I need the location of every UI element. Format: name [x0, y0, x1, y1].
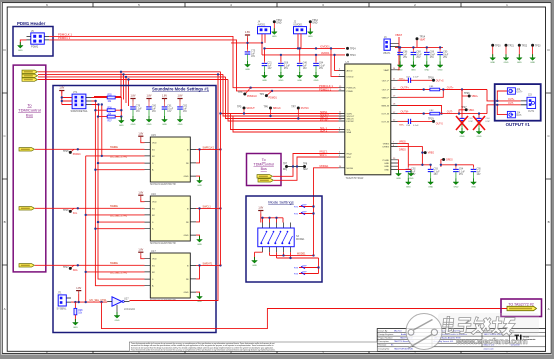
svg-text:OUT-: OUT- — [508, 102, 514, 105]
svg-text:25V: 25V — [416, 57, 421, 59]
svg-text:TP3: TP3 — [238, 91, 243, 94]
svg-text:VREG: VREG — [383, 143, 389, 145]
svg-text:C75: C75 — [251, 51, 256, 53]
svg-text:1uF: 1uF — [303, 65, 308, 67]
snubber cap C64 DNP with X — [473, 114, 491, 131]
svg-text:TP17: TP17 — [63, 267, 69, 269]
svg-text:16V: 16V — [251, 56, 256, 58]
ground in mode box — [252, 257, 258, 267]
test point TP13 on AVDD — [346, 53, 349, 56]
wire VREG row — [398, 143, 423, 164]
svg-text:VBM_P: VBM_P — [382, 97, 390, 99]
svg-text:TP21: TP21 — [508, 46, 514, 48]
wire SCL long line — [231, 114, 339, 130]
svg-text:C89: C89 — [430, 52, 435, 54]
connector JT1 SWMODETAIL — [71, 90, 92, 113]
svg-text:MODE: MODE — [347, 168, 354, 170]
wire I2C_SEL_CTRL row — [71, 294, 107, 303]
logo circle — [406, 314, 442, 350]
capacitor C88 — [411, 50, 417, 62]
capacitor C86 — [397, 50, 403, 62]
svg-text:I2C_SEL_CTRL: I2C_SEL_CTRL — [90, 299, 108, 302]
power 1.8V at JT1 — [59, 87, 64, 94]
svg-text:IOVDD: IOVDD — [347, 76, 354, 78]
svg-text:IOVDD1: IOVDD1 — [320, 45, 330, 49]
svg-text:Soundwire Mode Settings #1: Soundwire Mode Settings #1 — [152, 87, 210, 92]
svg-text:0.1uF: 0.1uF — [136, 108, 142, 110]
svg-text:25V: 25V — [284, 68, 289, 70]
resistor R28 pulldown — [74, 302, 83, 321]
ground of TP10 — [272, 28, 278, 38]
test point on tag3 wire — [71, 265, 74, 268]
svg-text:TP20: TP20 — [495, 46, 501, 48]
wire AVDD drop to IC AVDD — [335, 55, 339, 71]
svg-text:R55: R55 — [108, 95, 113, 97]
svg-text:SNS-: SNS- — [399, 124, 404, 126]
wire VBAT rail — [395, 37, 443, 70]
svg-text:DREG: DREG — [446, 160, 453, 162]
svg-text:25V: 25V — [319, 68, 324, 70]
ground U17 — [196, 292, 200, 295]
test point TP7 segment — [285, 165, 288, 168]
svg-text:PDMCLK: PDMCLK — [347, 88, 357, 90]
svg-text:DNP: DNP — [302, 205, 307, 207]
test point TP12 GND — [309, 20, 312, 23]
svg-text:VREG: VREG — [399, 140, 406, 143]
zone ticks right — [546, 93, 552, 265]
svg-text:Texas Instruments and/or its l: Texas Instruments and/or its licensors d… — [131, 348, 276, 351]
svg-text:Description:: Description: — [379, 340, 390, 343]
svg-text:SDA: SDA — [73, 269, 78, 272]
wire tdm bus line3 — [38, 76, 226, 78]
svg-text:DNP: DNP — [486, 121, 491, 123]
capacitor C90 — [437, 50, 443, 62]
wire OUT_M sense row with series cap C58 — [398, 120, 409, 122]
test point TP on PDMCLK — [246, 88, 251, 94]
OUTPUT #1 box — [495, 84, 541, 127]
svg-text:PDMD: PDMD — [347, 91, 354, 93]
wire TP7-TP8 tie — [288, 166, 303, 168]
svg-text:R56: R56 — [108, 107, 113, 109]
svg-text:C66: C66 — [284, 63, 289, 65]
tag SDOUT left 2 — [19, 207, 35, 210]
svg-text:OUT_P: OUT_P — [382, 80, 390, 82]
svg-text:SDA: SDA — [347, 131, 352, 134]
svg-text:C81: C81 — [167, 106, 172, 108]
TO TAS2772 #2 box — [501, 299, 542, 317]
test point TP8 segment — [303, 165, 306, 168]
svg-text:TP18: TP18 — [428, 77, 434, 79]
svg-text:1uF: 1uF — [268, 65, 273, 67]
wire mode vertical x313.5 lower — [313, 207, 315, 256]
svg-text:SCL: SCL — [73, 213, 78, 215]
capacitor C92 — [406, 167, 412, 179]
svg-text:OUT+: OUT+ — [508, 98, 515, 101]
To TDM/Control Bus box (center) — [247, 154, 282, 186]
svg-text:1uF: 1uF — [183, 108, 188, 110]
svg-text:DREG: DREG — [399, 148, 406, 151]
svg-text:Revision:: Revision: — [379, 345, 388, 347]
wire SWIRE vertical x95.4 — [95, 110, 144, 286]
svg-text:OUT-S: OUT-S — [436, 124, 443, 126]
svg-text:C95: C95 — [477, 169, 482, 171]
left pin stubs — [339, 70, 345, 167]
svg-text:VBAT: VBAT — [395, 33, 402, 37]
test point TP on SDW1 — [243, 107, 246, 110]
wire I2C_SEL vertical x85.7 — [86, 156, 145, 302]
svg-text:0.1uF: 0.1uF — [434, 171, 440, 173]
svg-text:0.1uF: 0.1uF — [319, 65, 325, 67]
wire I2C_SEL branch to bottom run — [102, 302, 508, 329]
wire PDMCLK1 from header — [49, 36, 338, 87]
svg-text:Project Number:: Project Number: — [379, 337, 394, 340]
wire bus drop1 to JT1 area — [94, 72, 121, 97]
svg-text:1uF: 1uF — [411, 171, 416, 173]
wire tag3 to U17 — [35, 264, 145, 266]
svg-text:SWDAT1: SWDAT1 — [203, 262, 213, 265]
capacitor C21 — [262, 61, 268, 73]
connector J2 IOVDD1 — [294, 21, 307, 34]
svg-text:C92: C92 — [411, 169, 416, 171]
svg-text:SDZ: SDZ — [303, 169, 308, 171]
svg-text:1uF: 1uF — [403, 54, 408, 56]
svg-text:IRQ: IRQ — [283, 169, 287, 171]
wire JT1 vertical to ICs — [101, 105, 103, 156]
test point on tag1 wire — [71, 149, 74, 152]
svg-text:AVDD1: AVDD1 — [321, 51, 330, 55]
svg-text:PDMD1 1: PDMD1 1 — [319, 87, 332, 91]
wire AVDD1 rail — [262, 43, 345, 62]
svg-text:C21: C21 — [268, 63, 273, 65]
wire 1.8V to JT1 left pins — [62, 91, 72, 105]
svg-text:1uF: 1uF — [152, 108, 157, 110]
test point on tag2 wire — [71, 208, 74, 211]
svg-text:A: A — [548, 307, 550, 311]
wire bus drop2 to JT1 area — [123, 74, 125, 99]
svg-text:C88: C88 — [416, 52, 421, 54]
svg-text:0.1uF: 0.1uF — [284, 65, 290, 67]
svg-text:OUT_P: OUT_P — [382, 90, 390, 92]
svg-text:C86: C86 — [403, 52, 408, 54]
svg-text:FSYNC: FSYNC — [347, 121, 355, 123]
svg-text:U16: U16 — [151, 192, 156, 196]
capacitor C93 — [428, 167, 434, 179]
ground U15 — [196, 176, 200, 179]
svg-text:OUTM-: OUTM- — [401, 111, 409, 114]
svg-text:TP7: TP7 — [283, 164, 288, 166]
wire IOVDD1 rail — [265, 34, 346, 63]
wire header pin to ground — [20, 40, 26, 45]
svg-text:GND: GND — [312, 23, 317, 25]
wire OUT_P main row — [398, 90, 521, 101]
bypass cap C82 with 1.8V — [177, 95, 182, 102]
Soundwire Mode Settings #1 box — [53, 86, 216, 333]
tag I2C_SEL_CTRL (to TAS2772) — [507, 306, 537, 310]
svg-text:C90: C90 — [443, 52, 448, 54]
svg-text:www.ti.com: www.ti.com — [484, 348, 494, 351]
svg-text:SDOUT: SDOUT — [246, 107, 255, 110]
wire U15 outputs join — [196, 149, 221, 163]
wire 1.8V to switch top rail — [261, 214, 283, 223]
svg-text:DREG: DREG — [383, 147, 390, 149]
ground of TP12 — [308, 28, 314, 38]
svg-text:R57: R57 — [108, 120, 113, 122]
svg-text:B: B — [548, 220, 550, 224]
ground below C63 — [459, 128, 465, 138]
test point TP24 on IOVDD — [346, 47, 349, 50]
resistor option rows top right — [294, 205, 315, 216]
test point TP20 GND unit — [491, 44, 494, 47]
svg-text:16V: 16V — [268, 68, 273, 70]
svg-text:FSYNC: FSYNC — [320, 119, 329, 122]
test point TP22 GND unit — [518, 44, 521, 47]
connector J24 OUT- — [507, 111, 522, 117]
zone ticks left — [2, 93, 7, 265]
svg-text:C46: C46 — [303, 63, 308, 65]
wire JT1 pin2 drop — [92, 101, 108, 110]
svg-text:B: B — [4, 220, 6, 224]
svg-text:25V: 25V — [459, 174, 464, 176]
svg-text:C94: C94 — [459, 169, 464, 171]
test point TP16 VREG — [422, 152, 424, 154]
svg-text:C84: C84 — [319, 63, 324, 65]
svg-text:PDMCLK: PDMCLK — [247, 95, 257, 98]
svg-text:SBCLK: SBCLK — [273, 107, 281, 110]
zone letters left — [4, 48, 7, 311]
svg-text:TP7: TP7 — [291, 105, 296, 108]
wire U17 outputs join — [196, 265, 221, 279]
svg-text:PDM1C: PDM1C — [73, 154, 81, 156]
svg-text:DNP: DNP — [302, 266, 307, 268]
wire bus right vertical3 + SDW3 to IC — [226, 77, 339, 119]
svg-text:TP16: TP16 — [63, 210, 69, 212]
svg-text:PDM1: PDM1 — [31, 45, 39, 49]
wire tag2 to U16 — [35, 207, 145, 209]
wire to J24 bottom — [497, 105, 507, 115]
svg-text:IOVDD1: IOVDD1 — [294, 23, 304, 26]
test point TP19 OUT-S — [432, 120, 435, 123]
svg-text:Bus: Bus — [26, 113, 33, 118]
bypass cap C79 with 1.8V — [130, 95, 135, 102]
svg-text:C80: C80 — [152, 106, 157, 108]
capacitor C46 — [297, 61, 303, 73]
svg-text:SDA 1: SDA 1 — [320, 130, 328, 133]
ground U7 pins right — [408, 170, 414, 180]
connector J23 speaker right — [521, 95, 536, 113]
ground below R28 — [73, 319, 79, 329]
svg-text:TP8: TP8 — [303, 164, 308, 166]
svg-text:25V: 25V — [403, 57, 408, 59]
svg-text:VDD: VDD — [152, 259, 157, 261]
svg-text:1uF: 1uF — [251, 53, 256, 55]
svg-text:VBM_M: VBM_M — [381, 106, 389, 108]
svg-text:SWRCLK1: SWRCLK1 — [203, 146, 215, 149]
svg-text:25V: 25V — [434, 174, 439, 176]
capacitor C66 — [278, 61, 284, 73]
svg-text:SN74LVC1G3157DCTR: SN74LVC1G3157DCTR — [150, 183, 176, 186]
svg-text:10uF: 10uF — [430, 54, 436, 56]
connector JW1 — [57, 292, 72, 311]
svg-text:MODE1: MODE1 — [320, 165, 330, 168]
svg-text:Drawn By:: Drawn By: — [379, 330, 389, 332]
svg-text:OUT+: OUT+ — [516, 92, 523, 94]
svg-text:U7: U7 — [346, 60, 350, 64]
svg-text:OUT-: OUT- — [447, 111, 453, 114]
wire U7 gnd pins tie — [398, 160, 412, 173]
svg-text:SDZ 1: SDZ 1 — [320, 154, 328, 157]
svg-text:Mfg Test: Mfg Test — [394, 329, 402, 332]
test point TP27 VBM- — [459, 110, 465, 114]
right pin stubs — [391, 70, 398, 170]
svg-text:TP26: TP26 — [464, 93, 470, 95]
wire VBM_P sense — [398, 90, 444, 98]
svg-text:SNS+: SNS+ — [399, 78, 405, 80]
ferrite FB1 inline — [430, 88, 440, 91]
wire select vertical x98 — [98, 117, 145, 280]
inverter U27 LVC1G04 — [107, 297, 135, 315]
svg-text:GND: GND — [384, 169, 389, 171]
capacitor C89 — [424, 50, 430, 62]
svg-text:Design Engineer:: Design Engineer: — [379, 334, 395, 336]
svg-text:DNP: DNP — [302, 272, 307, 274]
wire IOVDD drop to IC DVDD — [331, 48, 339, 76]
junction on PDMCLK wire — [249, 87, 251, 89]
To TDM/Control Bus box (left) — [13, 65, 46, 272]
wire OUT_M main row — [398, 105, 521, 114]
power 1.8V at buffer input — [76, 287, 81, 294]
svg-text:MODE1: MODE1 — [297, 252, 306, 255]
IC U16 (middle mux) — [145, 192, 197, 245]
power 1.8V at C75 — [245, 31, 250, 38]
dip switch S1 MODE1 — [258, 223, 305, 253]
wire tdm bus line4 — [38, 79, 228, 81]
svg-text:OUT_M: OUT_M — [381, 114, 389, 116]
svg-text:16V: 16V — [183, 111, 188, 113]
svg-text:AVDD1: AVDD1 — [258, 23, 266, 26]
svg-text:TP15: TP15 — [63, 151, 69, 153]
svg-text:0.1uF: 0.1uF — [167, 108, 173, 110]
svg-text:OUTPUT #1: OUTPUT #1 — [506, 122, 531, 127]
svg-text:FSYNC: FSYNC — [301, 107, 309, 110]
capacitor C84 — [313, 61, 319, 73]
test point TP14 VBAT — [416, 37, 419, 40]
svg-text:VREG: VREG — [428, 153, 435, 155]
svg-text:10uF: 10uF — [416, 54, 422, 56]
wire VCOEF row — [270, 254, 314, 256]
svg-text:TP24: TP24 — [350, 49, 356, 51]
wire tag1 to U15 — [35, 148, 145, 150]
svg-text:VBAT: VBAT — [383, 69, 389, 72]
svg-text:U15: U15 — [151, 133, 156, 137]
svg-text:TP23: TP23 — [535, 46, 541, 48]
wire 1.8V rail to J4 — [231, 34, 265, 50]
svg-text:GND: GND — [184, 292, 189, 294]
svg-text:16V: 16V — [167, 111, 172, 113]
wire lower rail2 — [277, 257, 312, 259]
svg-text:0.1uF: 0.1uF — [459, 171, 465, 173]
zone ticks bottom — [93, 351, 461, 353]
svg-text:TDM/Control: TDM/Control — [254, 163, 275, 167]
svg-text:U27: U27 — [124, 298, 129, 301]
tag PDMCLK left 1 — [19, 148, 35, 151]
tag SDOUT — [22, 70, 38, 73]
svg-text:TP10: TP10 — [276, 20, 282, 22]
junction dots on bus drops — [120, 71, 122, 73]
svg-text:OUT+: OUT+ — [447, 87, 454, 90]
wire U16 outputs join — [196, 208, 221, 222]
svg-text:Drawing No:: Drawing No: — [379, 349, 390, 351]
stylized chinese characters — [442, 316, 516, 335]
svg-text:OUTP+: OUTP+ — [401, 87, 410, 90]
svg-text:OUT-: OUT- — [516, 115, 522, 117]
svg-text:0.1uF: 0.1uF — [413, 125, 419, 127]
svg-text:VDD: VDD — [152, 202, 157, 204]
svg-text:TP19: TP19 — [428, 118, 434, 120]
svg-text:SWIRE: SWIRE — [110, 146, 118, 149]
svg-text:AVDD: AVDD — [347, 69, 353, 72]
svg-text:GND: GND — [184, 176, 189, 178]
wire tdm bus line2 — [38, 73, 223, 75]
svg-text:SYSBNL: SYSBNL — [57, 307, 67, 310]
ground GND of PDM1 header — [18, 42, 24, 52]
test point TP10 GND — [273, 20, 276, 23]
svg-text:GND: GND — [384, 166, 389, 168]
wire JT1 pin3 drop — [92, 105, 108, 117]
capacitor C75 — [245, 50, 251, 62]
svg-text:16V: 16V — [477, 174, 482, 176]
tag SDA left 3 — [19, 264, 35, 267]
wire bus right vertical2 + SDW2 to IC — [223, 74, 339, 116]
resistor option rows bottom right — [294, 258, 320, 276]
svg-text:VBAT1: VBAT1 — [383, 52, 391, 55]
resistor R pullup2 — [107, 109, 115, 112]
wire VBM_M sense — [398, 106, 442, 114]
resistor R pullup3 — [107, 115, 115, 118]
wire U27 output to bus — [130, 74, 219, 300]
svg-text:16V: 16V — [152, 111, 157, 113]
wire SDA long line — [233, 116, 339, 132]
svg-text:MODE1: MODE1 — [296, 238, 305, 241]
wire bus drop4 to JT1 area — [128, 80, 130, 107]
svg-text:C93: C93 — [434, 169, 439, 171]
power 1.8V at U15 — [138, 132, 143, 139]
wire bus drop3 to JT1 area — [125, 77, 127, 103]
svg-text:10uF: 10uF — [443, 54, 449, 56]
svg-text:25V: 25V — [443, 57, 448, 59]
svg-text:SWIRE: SWIRE — [110, 262, 118, 265]
wire PDMD1 from header — [49, 40, 338, 91]
zone numbers top — [46, 3, 508, 7]
svg-text:C79: C79 — [136, 106, 141, 108]
zone letters right — [548, 48, 551, 311]
svg-text:DNP: DNP — [302, 212, 307, 214]
svg-text:TP5: TP5 — [237, 105, 242, 108]
svg-text:PDMD1 1: PDMD1 1 — [58, 36, 71, 40]
svg-text:TAS2770EVM-RevE1: TAS2770EVM-RevE1 — [394, 348, 414, 351]
test point TP on PDMD — [267, 91, 272, 95]
svg-text:GND: GND — [184, 235, 189, 237]
svg-text:TP4: TP4 — [260, 93, 265, 96]
svg-text:TAS2770YFGR: TAS2770YFGR — [346, 176, 364, 180]
svg-text:TP14: TP14 — [420, 37, 426, 39]
test point TP on SDW2 — [269, 107, 272, 110]
test point TP18 OUT+S — [432, 79, 435, 82]
wire JT1 pin1 row — [92, 97, 122, 99]
wire tdm bus line1 — [38, 71, 221, 73]
connector J5 PDM1 — [27, 29, 50, 49]
test point TP17 DREG — [441, 159, 443, 161]
svg-text:U17: U17 — [151, 249, 156, 253]
